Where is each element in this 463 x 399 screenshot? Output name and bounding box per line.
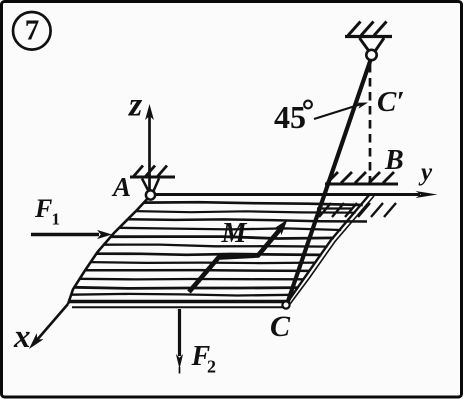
svg-text:z: z <box>128 87 143 124</box>
svg-text:B: B <box>384 145 404 176</box>
svg-text:45: 45 <box>274 99 306 135</box>
svg-text:A: A <box>111 172 131 202</box>
svg-text:7: 7 <box>25 15 40 47</box>
svg-text:C′: C′ <box>377 86 405 118</box>
svg-text:1: 1 <box>52 210 61 229</box>
svg-text:2: 2 <box>207 357 216 377</box>
svg-text:M: M <box>221 218 248 249</box>
svg-text:y: y <box>418 159 433 186</box>
svg-text:x: x <box>13 319 31 355</box>
svg-text:F: F <box>34 194 52 223</box>
svg-text:C: C <box>270 310 291 343</box>
